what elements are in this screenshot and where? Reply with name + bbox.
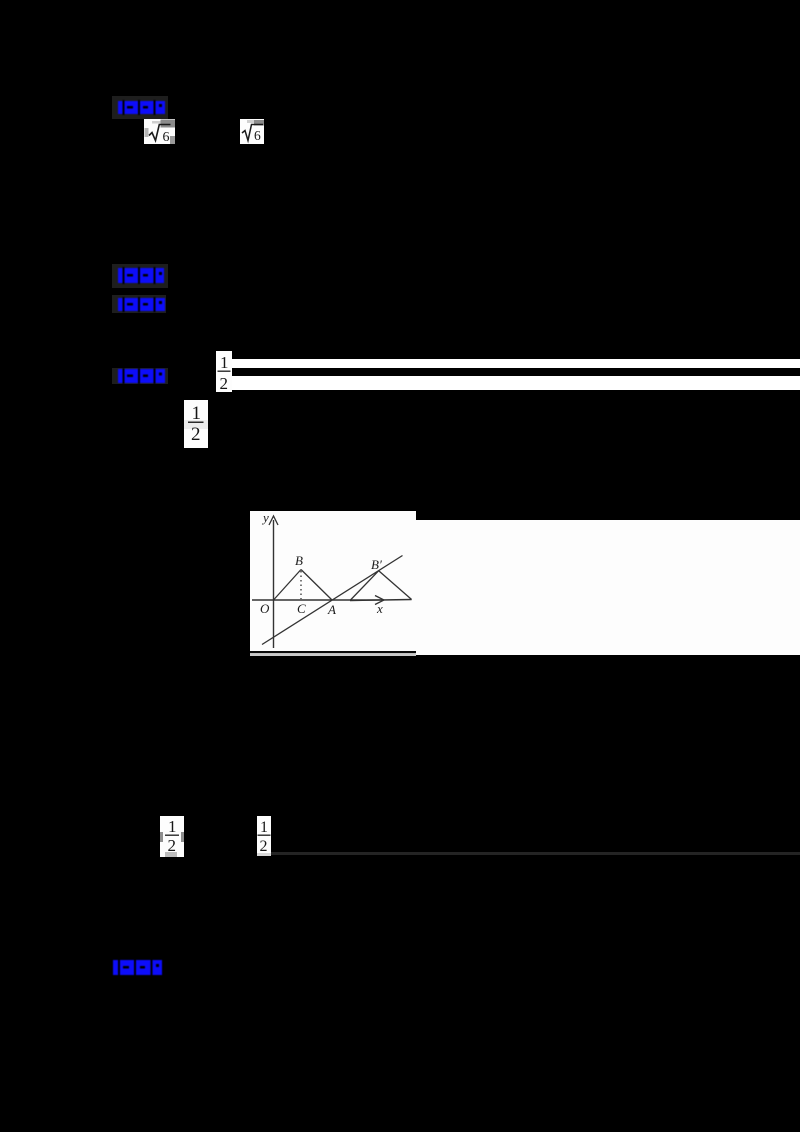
svg-text:C: C <box>297 601 306 616</box>
label 2 blue text 【分析】 <box>118 267 165 284</box>
triangle OBA side OB <box>274 570 302 601</box>
svg-text:6: 6 <box>163 130 170 144</box>
formula image 1/2 #2 <box>184 400 208 448</box>
dotted altitude BC <box>300 571 302 599</box>
triangle OBA side BA <box>301 570 332 601</box>
svg-text:6: 6 <box>254 128 261 143</box>
figure image (coordinate plane with triangles) <box>250 511 416 656</box>
triangle 2 right side <box>379 571 412 600</box>
svg-text:1: 1 <box>260 819 268 836</box>
formula image 1/2 #3 <box>160 816 184 857</box>
diagonal line through A <box>262 556 403 645</box>
formula image 1/2 #4 <box>257 816 271 856</box>
svg-text:B: B <box>295 553 303 568</box>
white highlight stripe 1 (text line) <box>232 359 800 368</box>
formula image sqrt(6) #1 <box>144 119 175 144</box>
svg-text:B′: B′ <box>371 557 382 572</box>
label 3 blue text 【解答】 <box>118 297 165 312</box>
svg-text:1: 1 <box>168 817 177 836</box>
svg-text:y: y <box>261 511 269 525</box>
bottom border line of figure <box>250 651 416 653</box>
svg-text:2: 2 <box>168 836 177 855</box>
svg-text:2: 2 <box>260 838 268 855</box>
white band right of figure (empty table cell) <box>416 520 800 655</box>
label box 3 <box>112 295 166 313</box>
x-axis arrowhead <box>375 596 384 605</box>
svg-text:2: 2 <box>191 424 201 445</box>
label 1 blue text 【考点】 <box>118 100 165 115</box>
triangle 2 base <box>350 600 412 601</box>
triangle 2 left side <box>350 571 379 601</box>
y-axis <box>273 520 275 648</box>
x-axis <box>252 599 383 601</box>
svg-text:1: 1 <box>192 403 202 424</box>
white highlight stripe 2 (text line) <box>232 376 800 390</box>
formula image sqrt(6) #2 <box>240 119 264 144</box>
svg-text:O: O <box>260 601 270 616</box>
label 5 blue text 【点评】 (no box) <box>113 959 163 976</box>
label 4 blue text 【点评】 <box>118 368 165 384</box>
formula image 1/2 #1 <box>216 351 232 392</box>
svg-text:A: A <box>327 602 336 617</box>
label box 1 (dark highlight) <box>112 96 168 119</box>
svg-text:2: 2 <box>220 374 229 392</box>
label box 4 <box>112 368 168 384</box>
label box 2 <box>112 264 168 288</box>
y-axis arrowhead <box>269 516 278 525</box>
svg-text:x: x <box>376 601 383 616</box>
faint underline right of 1/2 #4 <box>271 852 800 855</box>
svg-text:1: 1 <box>220 353 229 372</box>
